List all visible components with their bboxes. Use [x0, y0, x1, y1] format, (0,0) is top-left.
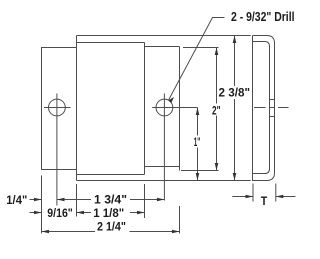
arrowhead row3 at 179.5 pointing right — [172, 230, 180, 234]
inner bottom line — [145, 166, 180, 168]
row3 dim line right — [130, 231, 180, 233]
side view centerline dash 2 — [270, 107, 275, 109]
hole H2 horizontal centerline — [152, 107, 197, 109]
row2 dim line right — [130, 212, 145, 214]
row1 arrow tail mid — [57, 199, 91, 201]
body bottom edge with extension — [77, 180, 251, 182]
arrowhead 1 inch up — [196, 108, 200, 116]
side view centerline dash 1 — [254, 107, 266, 109]
arrowhead 2 inch up — [215, 48, 219, 56]
T dim extension right — [275, 184, 277, 202]
extension line bottom for 2 inch dim — [181, 170, 219, 172]
row2 arrow tail mid — [77, 212, 92, 214]
svg-text:2 - 9/32" Drill: 2 - 9/32" Drill — [231, 10, 295, 24]
svg-text:2 3/8": 2 3/8" — [219, 86, 251, 100]
svg-text:1 3/4": 1 3/4" — [94, 193, 127, 207]
svg-text:1": 1" — [194, 135, 201, 149]
hole H1 circle — [49, 99, 66, 116]
side view inner outline — [253, 42, 270, 174]
inner right vertical line — [179, 47, 181, 171]
white background for 2 inch label — [211, 104, 222, 116]
arrowhead row2 at 41.5 pointing right — [34, 211, 42, 215]
svg-text:9/16": 9/16" — [47, 206, 73, 220]
hole H1 horizontal centerline — [44, 107, 71, 109]
arrowhead row2 at 144.5 pointing right — [137, 211, 145, 215]
arrowhead T right pointing left — [276, 195, 284, 199]
T dim arrow tail left — [232, 196, 253, 198]
bottom lip top line — [77, 174, 145, 176]
inner top line — [145, 46, 180, 48]
row1 arrow tail left — [30, 199, 42, 201]
leader line to drill note — [168, 18, 224, 101]
white background for 2 3/8 label — [218, 86, 251, 99]
bottom extension line at 144.5 — [144, 184, 146, 218]
arrowhead 1 inch down — [196, 173, 200, 181]
arrowhead 2 3/8 down — [233, 173, 237, 181]
inner vertical line — [144, 43, 146, 175]
left plate outline — [42, 48, 77, 170]
body left edge — [76, 36, 78, 181]
svg-text:1/4": 1/4" — [6, 193, 27, 207]
side view hole bottom line — [270, 116, 275, 118]
side view outer outline — [253, 36, 275, 181]
hole H2 vertical centerline and extension — [163, 94, 165, 201]
bottom extension line at 41.5 — [41, 176, 43, 234]
row1 dim line right — [130, 199, 164, 201]
arrowhead 2 inch down — [215, 163, 219, 171]
svg-text:T: T — [261, 194, 268, 208]
arrowhead row1 at 41.5 pointing right — [34, 198, 42, 202]
top lip bottom line — [77, 42, 145, 44]
hole H2 circle — [156, 99, 173, 116]
dimension line 1 inch — [197, 108, 199, 181]
extension line top for 2 inch dim — [183, 47, 219, 49]
body top edge with extension — [77, 35, 251, 37]
bottom extension line at 179.5 — [179, 206, 181, 234]
arrowhead row3 at 41.5 pointing left — [42, 230, 50, 234]
svg-text:2 1/4": 2 1/4" — [97, 220, 126, 234]
svg-text:1 1/8": 1 1/8" — [93, 206, 124, 220]
dimension line 2 3/8 inch — [234, 36, 236, 181]
arrowhead row1 at 57 pointing left — [57, 198, 65, 202]
arrowhead row2 at 76.5 pointing left — [77, 211, 85, 215]
arrowhead leader at hole H2 — [168, 97, 174, 103]
side view hole top line — [270, 99, 275, 101]
bottom extension line at 76.5 — [76, 184, 78, 217]
arrowhead 2 3/8 up — [233, 36, 237, 44]
T dim extension left — [252, 184, 254, 202]
arrowhead row1 at 164.4 pointing right — [157, 198, 165, 202]
row3 dim line left — [42, 231, 96, 233]
hole H1 vertical centerline and extension — [56, 94, 58, 206]
svg-text:2": 2" — [212, 104, 221, 118]
T dim arrow tail right — [276, 196, 296, 198]
side view centerline dash 3 — [278, 107, 289, 109]
white background for 1 inch label — [193, 136, 203, 148]
arrowhead T left pointing right — [246, 195, 254, 199]
row2 arrow tail left — [30, 212, 42, 214]
dimension line 2 inch — [216, 48, 218, 171]
